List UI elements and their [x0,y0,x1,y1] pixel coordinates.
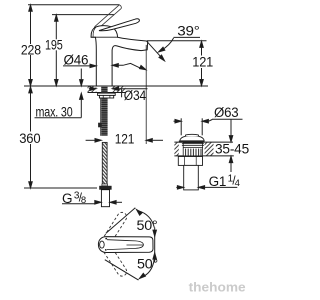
39 degree stream arrow [146,41,165,62]
spout outlet extension line [145,45,147,144]
flexible supply hose [102,142,107,184]
text label backgrounds [19,39,214,144]
dimension 121 vertical [200,41,204,86]
faucet body and spout outline [91,26,148,86]
drain body through deck [182,143,204,156]
drain cap dome [180,136,204,141]
dimension 35-45 [229,119,233,172]
dimension G1 1/4 leader [176,186,237,190]
lever handle (closed position) [99,19,139,31]
svg-text:G11/4: G11/4 [209,173,240,189]
svg-text:Ø46: Ø46 [64,52,89,67]
svg-text:Ø63: Ø63 [214,105,239,120]
knob seam arc [93,27,96,36]
drain threaded tube G1 1/4 [184,165,199,190]
dome base line [91,36,118,38]
top view: lever inner outline [107,240,143,250]
dimension texts [19,24,249,272]
drain cap knob [185,134,198,136]
svg-text:max. 30: max. 30 [36,104,73,119]
dimension line 228/360 vertical [29,5,33,188]
washer flange [98,93,116,95]
top view: dashed lever swung up 50 [100,212,127,248]
drain locking nut [178,156,202,165]
dimension G3/8 leader and arrows [62,201,122,205]
360 bottom tick line [24,187,97,189]
drain cap rim [179,141,205,143]
svg-text:35-45: 35-45 [215,142,249,157]
svg-text:121: 121 [192,55,213,70]
svg-text:360: 360 [19,131,40,146]
drain waste fitting: deck band [174,142,233,156]
hose end nut [99,186,111,190]
svg-text:121: 121 [115,132,134,147]
drain deck hatch right [205,143,214,156]
deck bottom line [88,92,126,94]
G3/8 connector tube [101,190,109,207]
drain deck hatch left [174,143,178,156]
dimension Ø34 arrows and label bracket [89,87,148,97]
dimension Ø63 [174,118,243,135]
dimension line 195 vertical [55,15,59,86]
top view: faucet body outline [98,237,153,253]
top reference line (228 max height) [28,4,120,6]
top view: lever centre tick [127,244,144,246]
fixing tab [98,123,102,128]
reference line (195 lever height) [52,14,114,16]
39 degree label underline and arc [158,37,200,53]
dimension Ø46 leader and arrows [63,63,147,71]
aerator reference line [147,40,207,42]
threaded shank through deck [101,86,107,136]
svg-text:228: 228 [21,42,41,57]
deck section hatch right [112,86,125,92]
svg-text:Ø34: Ø34 [124,88,147,103]
deck section hatch left [88,86,97,92]
phantom raised lever [94,5,121,30]
dimension 121 horizontal arrows [86,139,163,143]
svg-text:39°: 39° [177,24,199,39]
svg-text:thehome: thehome [189,279,246,294]
top view: 50 degree rays arcs and ticks [105,208,157,280]
dimension max.30 leader and arrows [35,69,84,118]
svg-text:50°: 50° [137,256,158,271]
top view: dashed lever swung down 50 [100,241,127,277]
svg-text:50°: 50° [137,218,158,233]
mounting nut [99,95,113,98]
countertop deck line (main view) [24,85,208,87]
svg-text:195: 195 [45,38,63,53]
top view: pivot oval [100,241,105,248]
